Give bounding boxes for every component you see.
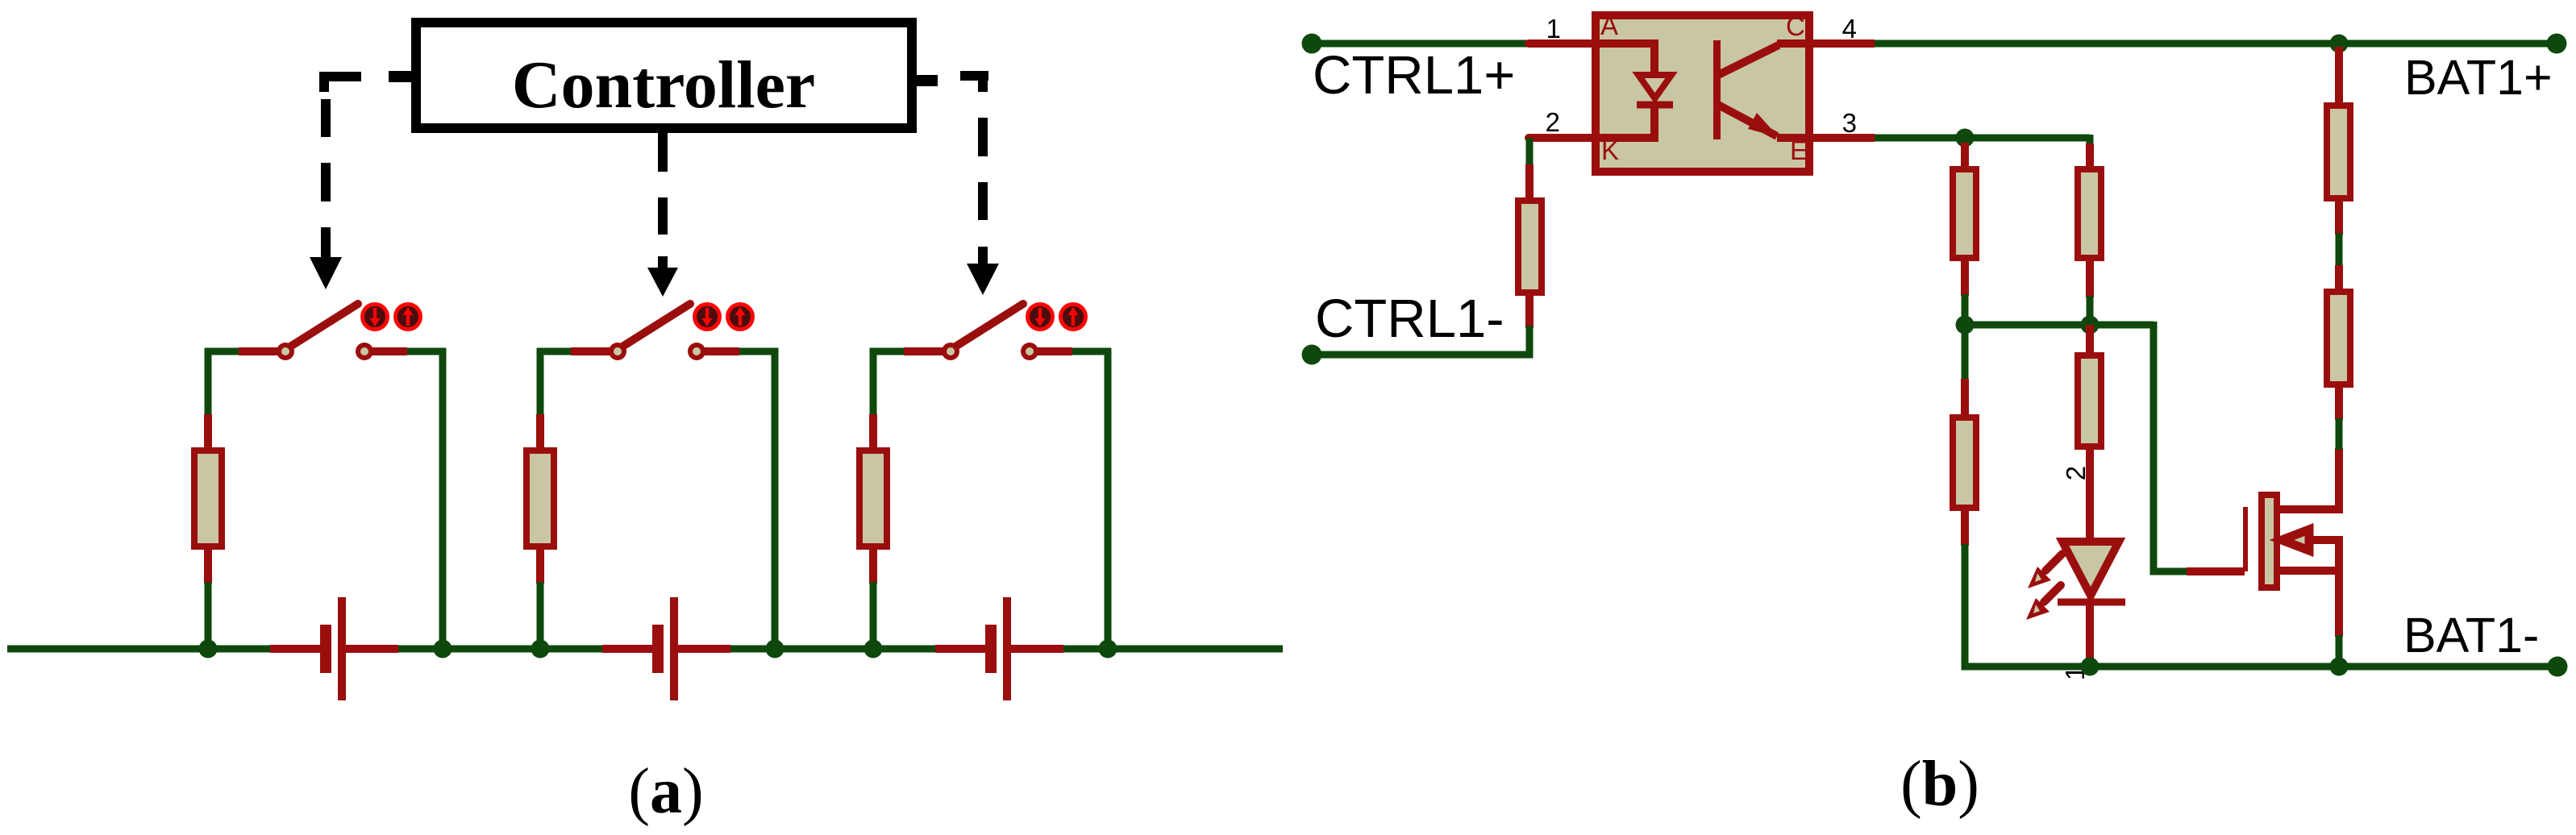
pin number 1 [1546, 14, 1561, 44]
switch SW2 right terminal [688, 343, 705, 360]
resistor R7 [1953, 417, 1976, 508]
wire cell3 switch to left terminal [870, 348, 904, 355]
wire cell1 right horizontal [407, 348, 446, 355]
junction cell2 right [766, 640, 784, 658]
switch SW3 left lead [904, 347, 943, 355]
switch SW1 down button [363, 305, 388, 330]
dashed control link to SW1 - vertical dash 1 [321, 99, 331, 137]
resistor R10 bottom lead [2335, 384, 2343, 420]
opto U1 pin label C [1786, 11, 1805, 41]
dashed control link to SW3 - vertical dash 3 [978, 247, 988, 264]
dashed control link to SW1 - horizontal dash [319, 77, 361, 92]
terminal BAT1- [2548, 657, 2568, 677]
wire cell1 left vertical upper [205, 348, 212, 414]
switch SW1 up button [396, 305, 421, 330]
wire R10 to drain [2336, 418, 2343, 450]
wire cell2 left vertical lower [537, 582, 544, 649]
LED D1 pin 2 label [2061, 466, 2091, 480]
svg-text:4: 4 [1842, 14, 1857, 44]
battery BT1 left lead [270, 645, 321, 653]
wire cell2 left vertical upper [537, 348, 544, 414]
resistor R3 [859, 451, 887, 546]
LED D1 emission arrow 2 [2026, 585, 2061, 620]
resistor R8 top lead [2086, 325, 2094, 356]
wire source to bus [2336, 635, 2343, 667]
resistor R8 bottom lead / LED anode lead [2086, 446, 2094, 542]
wire opto pin3 to divider [1875, 135, 2090, 142]
dashed control link to SW2 - dash 1 [658, 197, 668, 235]
wire cell2 switch to left terminal [537, 348, 571, 355]
dashed control link to SW3 - vertical dash 1 [978, 118, 988, 156]
junction LED to bus [2081, 658, 2100, 676]
wire node4 down left [1962, 325, 1969, 380]
junction cell1 left [199, 640, 218, 658]
switch SW2 right lead [704, 347, 739, 355]
resistor R4 [1518, 201, 1542, 293]
MOSFET Q1 source riser [2335, 540, 2343, 637]
resistor R6 [2078, 169, 2101, 258]
svg-text:1: 1 [1546, 14, 1561, 44]
switch SW1 right terminal [356, 343, 373, 360]
resistor R1 top lead [204, 414, 212, 451]
dashed control link to SW1 - vertical dash 2 [321, 163, 331, 201]
resistor R9 top lead [2335, 47, 2343, 106]
wire cell2 right horizontal [739, 348, 778, 355]
opto U1 internal LED [1638, 75, 1671, 98]
resistor R1 bottom lead [204, 546, 212, 584]
opto U1 phototransistor collector [1718, 45, 1779, 75]
pin number 4 [1842, 14, 1857, 44]
LED D1 emission arrow 1 [2028, 554, 2062, 588]
arrowhead to SW3 [967, 264, 999, 295]
svg-text:(b): (b) [1900, 749, 1979, 820]
opto U1 pin 1 lead [1529, 39, 1596, 48]
resistor R2 top lead [536, 414, 544, 451]
battery BT3 right lead [1011, 645, 1063, 653]
svg-text:3: 3 [1842, 108, 1857, 138]
junction cell3 right [1099, 640, 1117, 658]
bottom bus wire (a) [7, 646, 1283, 653]
battery BT3 plate gap [996, 642, 1004, 655]
wire R7 to bus corner [1965, 544, 1975, 667]
resistor R8 [2078, 355, 2101, 447]
junction cell2 left [531, 640, 550, 658]
switch SW2 up button [728, 305, 753, 330]
resistor R6 top lead [2086, 143, 2094, 170]
dashed control link to SW1 - vertical dash 3 [321, 227, 331, 259]
switch SW2 lever [622, 304, 690, 347]
opto U1 pin label K [1601, 135, 1619, 165]
pin number 3 [1842, 108, 1857, 138]
switch SW3 up button [1061, 305, 1086, 330]
battery BT2 left lead [602, 645, 653, 653]
MOSFET Q1 drain stub [2278, 448, 2339, 509]
battery BT3 left lead [935, 645, 986, 653]
junction cell1 right [434, 640, 452, 658]
wire node3 corner down [2087, 135, 2094, 145]
junction node4 right [2081, 316, 2100, 334]
wire cell2 right vertical [772, 348, 779, 649]
controller label [512, 48, 815, 123]
dashed control link to SW3 - vertical dash 2 [978, 182, 988, 220]
LED D1 [2062, 542, 2119, 596]
junction node4 left [1956, 316, 1975, 334]
resistor R3 top lead [869, 414, 877, 451]
junction node3 [1956, 129, 1975, 147]
opto U1 pin label E [1790, 135, 1808, 165]
switch SW2 down button [695, 305, 720, 330]
label CTRL1- [1315, 289, 1504, 349]
resistor R7 bottom lead [1961, 507, 1969, 546]
battery BT2 right lead [678, 645, 730, 653]
MOSFET Q1 source arrow [2282, 530, 2339, 564]
controller bottom pin stub [658, 128, 668, 172]
optocoupler U1 body [1596, 15, 1809, 172]
svg-text:(a): (a) [628, 756, 703, 827]
caption (a) [628, 756, 703, 827]
wire R6 to node4 [2087, 296, 2094, 325]
wire cell3 right horizontal [1072, 348, 1111, 355]
opto U1 phototransistor base bar [1713, 40, 1721, 139]
battery BT1 plate gap [331, 642, 339, 655]
MOSFET Q1 gate lead [2187, 567, 2245, 575]
resistor R5 bottom lead [1961, 257, 1969, 296]
label BAT1+ [2404, 50, 2553, 105]
wire pin2 corner down [1526, 138, 1534, 166]
opto U1 pin 2 lead [1529, 134, 1596, 142]
wire opto pin4 to BAT1+ [1875, 40, 2557, 48]
resistor R2 [526, 451, 554, 546]
battery BT2 negative plate [652, 625, 664, 673]
dashed control link to SW3 - horizontal dash [960, 76, 988, 92]
caption (b) [1900, 749, 1979, 820]
arrowhead to SW2 [647, 268, 678, 297]
label CTRL1+ [1313, 45, 1515, 106]
svg-text:BAT1+: BAT1+ [2404, 50, 2553, 105]
battery BT1 positive plate [338, 597, 346, 700]
svg-text:A: A [1600, 10, 1618, 40]
wire cell1 right vertical [439, 348, 447, 649]
resistor R4 bottom lead [1525, 293, 1534, 328]
label BAT1- [2403, 608, 2539, 663]
bottom bus wire (b) [1965, 663, 2557, 671]
resistor R5 [1953, 169, 1976, 258]
battery BT2 plate gap [663, 642, 671, 655]
switch SW3 right lead [1037, 347, 1072, 355]
wire cell3 right vertical [1105, 348, 1112, 649]
switch SW2 left terminal [609, 343, 626, 360]
wire CTRL1+ to opto pin1 [1312, 40, 1529, 48]
opto U1 internal anode path [1592, 44, 1654, 75]
resistor R7 top lead [1961, 379, 1969, 418]
battery BT3 negative plate [985, 625, 997, 673]
MOSFET Q1 bulk stub [2278, 567, 2336, 575]
junction source to bus [2330, 658, 2349, 676]
pin number 2 [1546, 107, 1560, 137]
resistor R2 bottom lead [536, 546, 544, 584]
wire cell1 left vertical lower [205, 582, 212, 649]
battery BT3 positive plate [1003, 597, 1011, 700]
wire cell1 switch to left terminal [205, 348, 239, 355]
svg-text:BAT1-: BAT1- [2403, 608, 2539, 663]
LED D1 cathode bar [2058, 599, 2125, 606]
node4 bus wire [1965, 322, 2154, 329]
resistor R4 top lead [1525, 164, 1534, 201]
terminal CTRL1- [1302, 345, 1322, 365]
svg-text:2: 2 [1546, 107, 1560, 137]
switch SW1 right lead [372, 347, 407, 355]
wire R9 to R10 [2336, 233, 2343, 267]
svg-text:2: 2 [2061, 466, 2091, 480]
MOSFET Q1 channel body [2262, 495, 2277, 588]
opto U1 pin 4 lead [1777, 39, 1875, 48]
svg-text:C: C [1786, 11, 1805, 41]
opto U1 internal LED cathode bar [1637, 102, 1673, 109]
battery BT2 positive plate [670, 597, 678, 700]
junction BAT1+ divider [2330, 35, 2349, 53]
switch SW3 right terminal [1021, 343, 1038, 360]
resistor R10 top lead [2335, 265, 2343, 293]
wire cell3 left vertical lower [870, 582, 877, 649]
svg-text:CTRL1+: CTRL1+ [1313, 45, 1515, 106]
wire node4 to gate corner [2154, 322, 2187, 571]
switch SW3 down button [1028, 305, 1053, 330]
LED D1 pin 1 label [2060, 666, 2090, 680]
switch SW2 left lead [571, 347, 610, 355]
controller right pin stub [912, 75, 938, 86]
resistor R9 [2327, 106, 2350, 198]
battery BT1 right lead [346, 645, 398, 653]
switch SW3 left terminal [942, 343, 959, 360]
resistor R1 [194, 451, 222, 546]
switch SW3 lever [955, 304, 1023, 347]
battery BT1 negative plate [320, 625, 331, 673]
wire R4 to CTRL1- corner [1312, 326, 1529, 355]
terminal CTRL1+ [1302, 34, 1322, 54]
resistor R6 bottom lead [2086, 257, 2094, 297]
svg-text:Controller: Controller [512, 48, 815, 123]
LED D1 cathode lead [2086, 602, 2094, 667]
wire cell3 left vertical upper [870, 348, 877, 414]
arrowhead to SW1 [310, 257, 342, 289]
switch SW1 lever [290, 304, 358, 347]
switch SW1 left lead [239, 347, 278, 355]
controller left pin stub [389, 71, 416, 82]
switch SW1 left terminal [277, 343, 294, 360]
wire R5 to node4 [1962, 294, 1969, 325]
controller block [416, 23, 912, 128]
junction cell3 left [864, 640, 883, 658]
dashed control link to SW2 - dash 2 [658, 256, 668, 269]
terminal BAT1+ [2547, 34, 2567, 54]
resistor R5 top lead [1961, 143, 1969, 170]
opto U1 pin 3 lead [1777, 134, 1875, 142]
resistor R10 [2327, 292, 2350, 384]
opto U1 internal cathode path [1592, 102, 1654, 138]
svg-text:CTRL1-: CTRL1- [1315, 289, 1504, 349]
MOSFET Q1 gate plate [2243, 507, 2248, 571]
resistor R3 bottom lead [869, 546, 877, 584]
opto U1 pin label A [1600, 10, 1618, 40]
resistor R9 bottom lead [2335, 197, 2343, 235]
svg-text:K: K [1601, 135, 1619, 165]
opto U1 phototransistor emitter [1718, 105, 1779, 137]
